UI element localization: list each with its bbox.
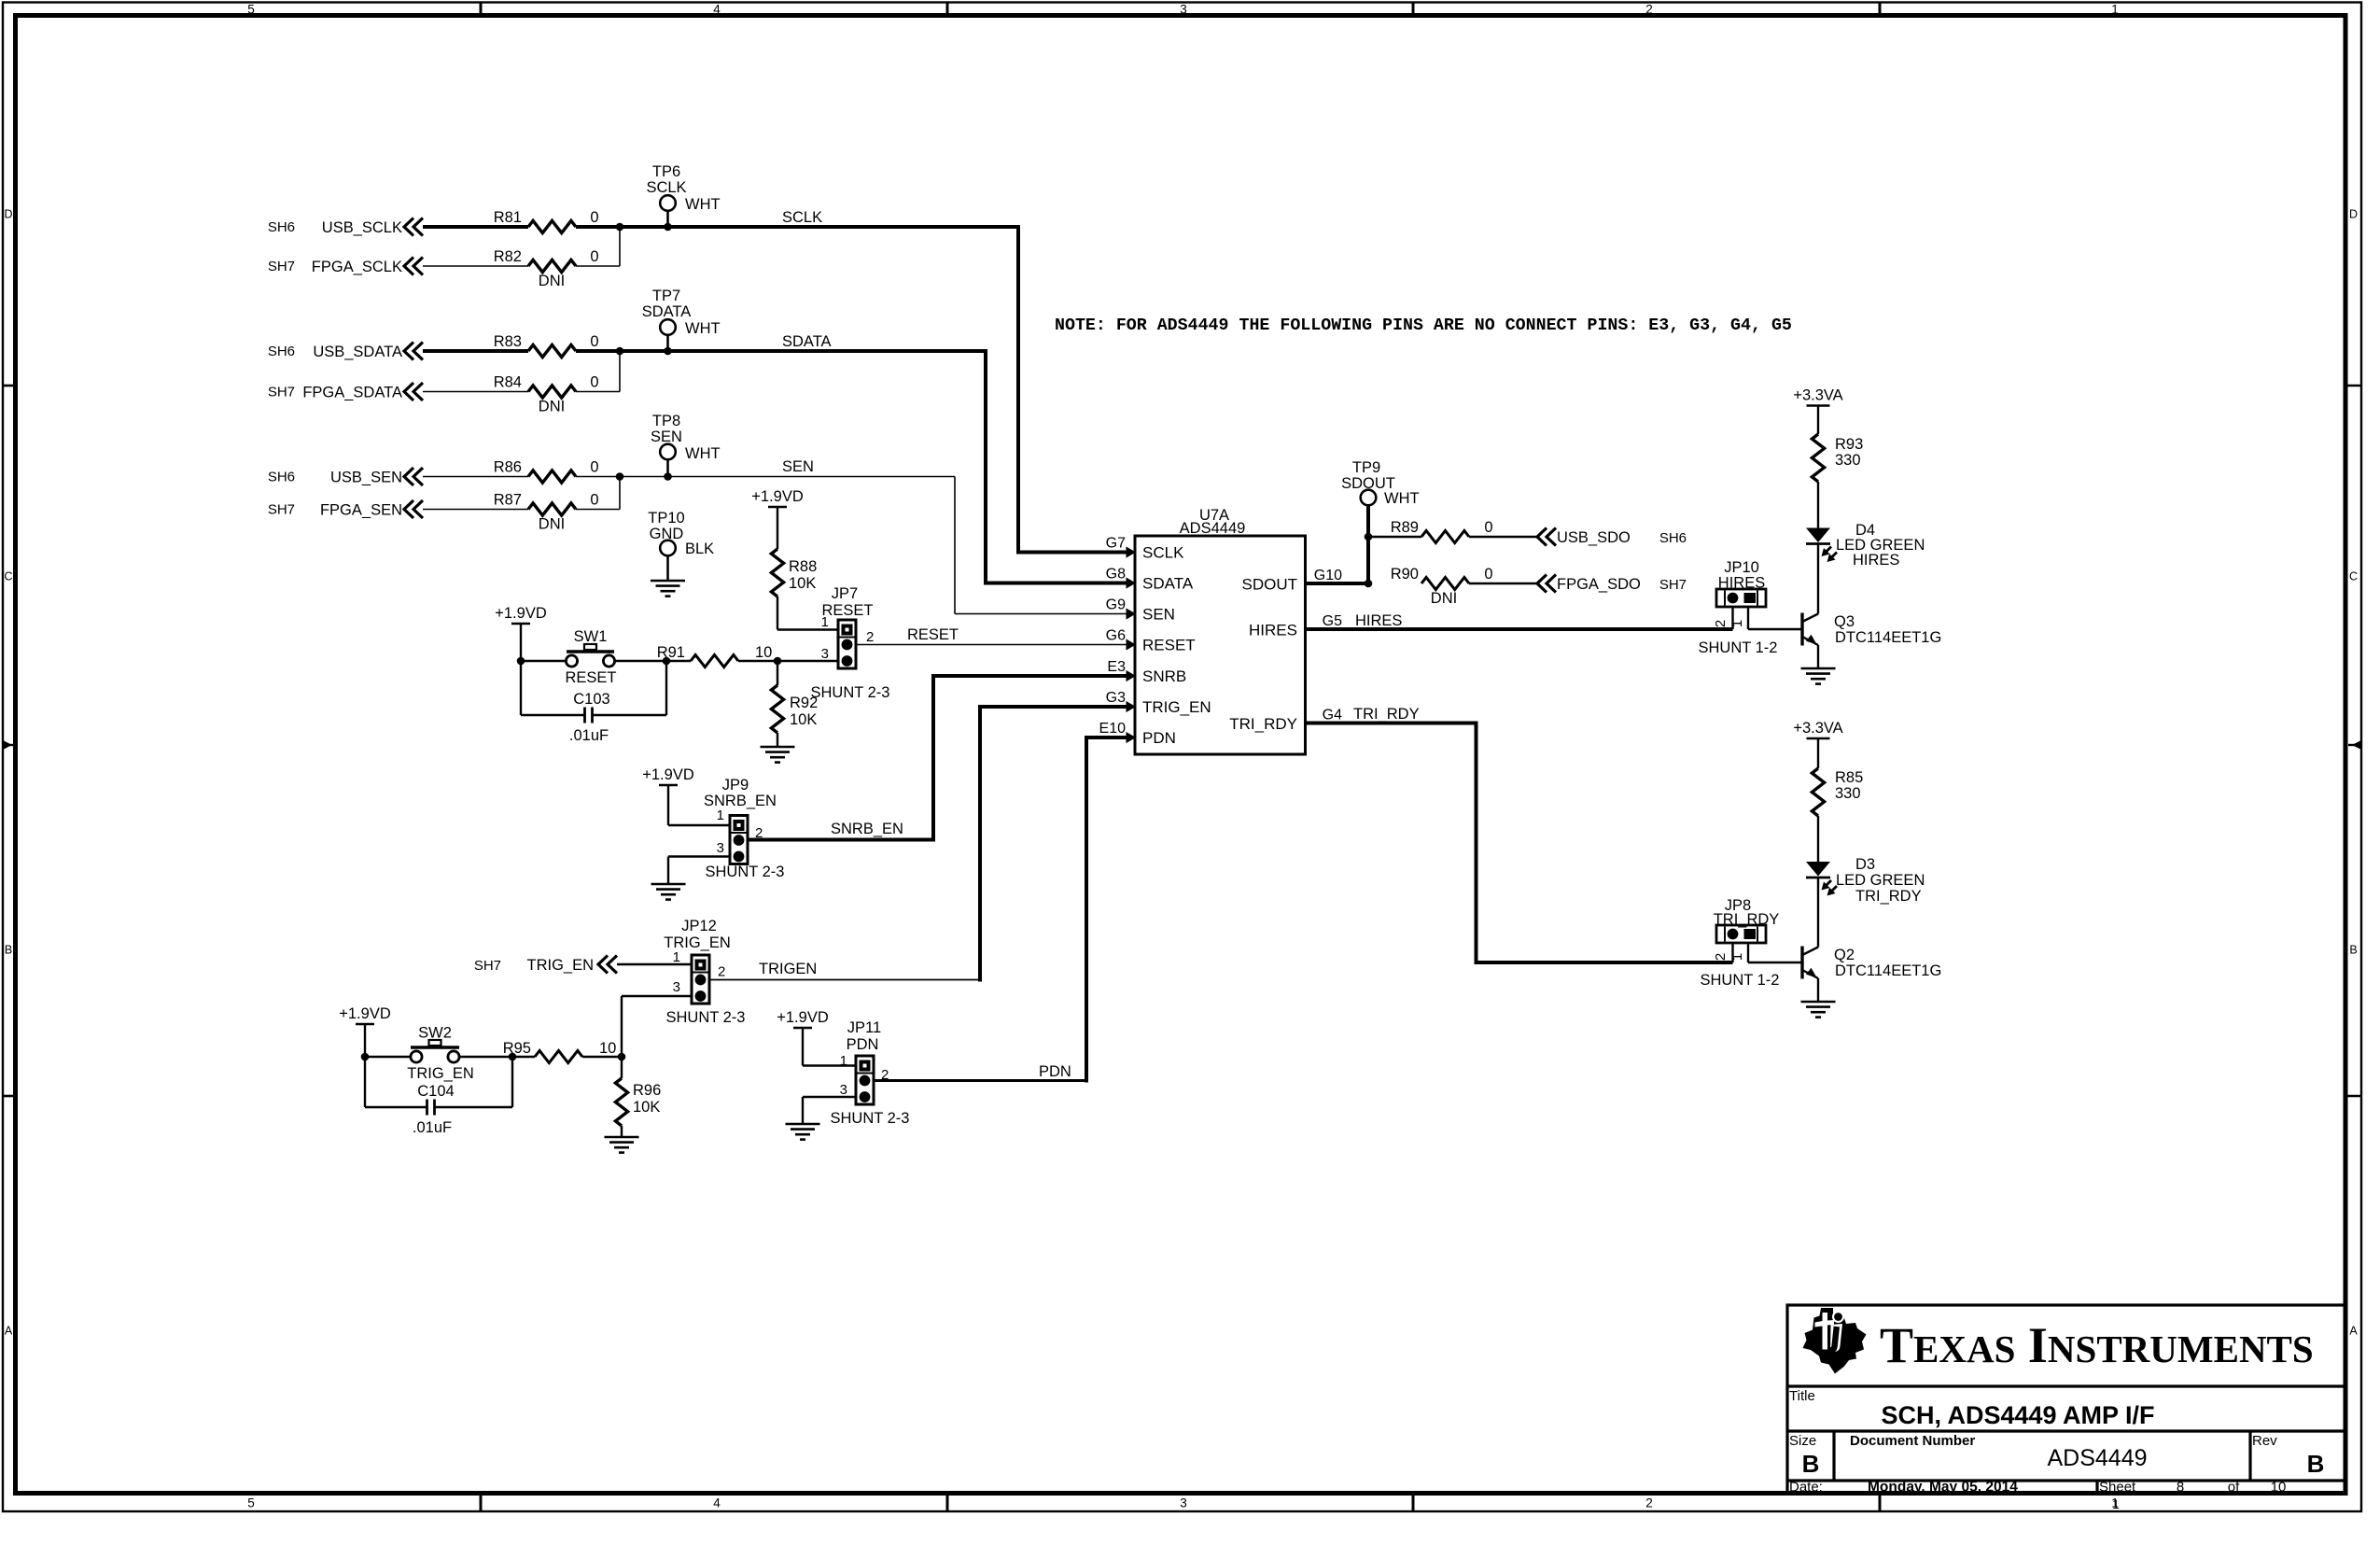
svg-text:SH6: SH6 <box>1659 530 1687 546</box>
svg-text:R82: R82 <box>494 248 522 265</box>
svg-text:Q3: Q3 <box>1834 613 1855 630</box>
svg-text:3: 3 <box>1180 1496 1187 1510</box>
svg-text:USB_SDATA: USB_SDATA <box>313 344 402 360</box>
svg-text:Size: Size <box>1789 1433 1816 1449</box>
svg-text:0: 0 <box>1484 566 1492 583</box>
svg-text:Title: Title <box>1789 1388 1815 1404</box>
svg-text:1: 1 <box>1729 953 1745 961</box>
svg-text:Monday, May 05, 2014: Monday, May 05, 2014 <box>1868 1480 2018 1496</box>
svg-text:330: 330 <box>1835 452 1861 469</box>
svg-text:RESET: RESET <box>1142 637 1196 654</box>
svg-text:1: 1 <box>2111 3 2119 17</box>
svg-text:C103: C103 <box>573 691 609 708</box>
svg-text:3: 3 <box>673 979 680 995</box>
svg-text:R88: R88 <box>789 558 817 575</box>
svg-text:SH7: SH7 <box>1659 577 1687 593</box>
svg-text:C104: C104 <box>417 1083 454 1100</box>
svg-text:FPGA_SDATA: FPGA_SDATA <box>302 385 402 401</box>
svg-text:Q2: Q2 <box>1834 947 1855 963</box>
svg-text:.01uF: .01uF <box>413 1119 452 1136</box>
svg-text:DNI: DNI <box>539 399 565 415</box>
svg-text:D3: D3 <box>1855 856 1875 873</box>
svg-text:LED GREEN: LED GREEN <box>1836 872 1925 889</box>
svg-text:1: 1 <box>2112 1497 2120 1511</box>
svg-text:JP7: JP7 <box>832 585 858 602</box>
svg-text:G4: G4 <box>1323 708 1342 723</box>
svg-text:ADS4449: ADS4449 <box>1180 520 1246 537</box>
svg-text:G8: G8 <box>1106 567 1126 583</box>
svg-text:SDATA: SDATA <box>1142 575 1194 593</box>
svg-text:WHT: WHT <box>1384 490 1420 507</box>
svg-text:A: A <box>2349 1325 2358 1338</box>
svg-text:SH6: SH6 <box>268 219 295 235</box>
svg-text:C: C <box>2349 570 2358 583</box>
svg-text:SH7: SH7 <box>268 502 295 518</box>
svg-text:1: 1 <box>673 949 680 965</box>
svg-text:TP9: TP9 <box>1352 459 1380 476</box>
svg-text:TRIG_EN: TRIG_EN <box>407 1065 474 1082</box>
svg-text:0: 0 <box>590 459 598 476</box>
svg-text:JP12: JP12 <box>681 918 717 934</box>
svg-text:of: of <box>2228 1480 2240 1496</box>
svg-text:1: 1 <box>821 614 829 630</box>
svg-text:R81: R81 <box>494 209 522 226</box>
svg-text:R83: R83 <box>494 333 522 350</box>
svg-text:BLK: BLK <box>685 541 714 557</box>
svg-text:.01uF: .01uF <box>569 727 609 744</box>
svg-text:1: 1 <box>1729 620 1745 627</box>
svg-text:G6: G6 <box>1106 628 1126 644</box>
svg-text:0: 0 <box>1484 519 1492 536</box>
svg-text:0: 0 <box>590 492 598 509</box>
svg-text:B: B <box>1802 1450 1820 1478</box>
svg-text:TRIGEN: TRIGEN <box>759 961 817 977</box>
svg-text:SNRB_EN: SNRB_EN <box>704 793 777 809</box>
svg-text:SEN: SEN <box>782 458 814 475</box>
svg-text:0: 0 <box>590 374 598 391</box>
svg-text:SDATA: SDATA <box>642 303 692 320</box>
svg-text:SCLK: SCLK <box>646 179 686 196</box>
svg-text:SEN: SEN <box>651 428 682 445</box>
svg-text:+1.9VD: +1.9VD <box>751 488 804 505</box>
svg-text:D: D <box>4 208 12 221</box>
svg-text:USB_SCLK: USB_SCLK <box>322 219 402 236</box>
svg-text:RESET: RESET <box>907 626 959 643</box>
svg-text:JP10: JP10 <box>1724 559 1759 576</box>
svg-text:4: 4 <box>713 3 721 17</box>
svg-text:0: 0 <box>590 333 598 350</box>
svg-text:SHUNT 2-3: SHUNT 2-3 <box>706 864 785 880</box>
svg-text:10: 10 <box>755 644 772 661</box>
svg-text:GND: GND <box>650 526 684 542</box>
svg-text:TP10: TP10 <box>648 510 684 527</box>
svg-text:+3.3VA: +3.3VA <box>1793 387 1842 404</box>
svg-text:TRIG_EN: TRIG_EN <box>526 957 594 974</box>
svg-text:SEN: SEN <box>1142 606 1175 624</box>
svg-text:DTC114EET1G: DTC114EET1G <box>1835 962 1941 979</box>
svg-text:HIRES: HIRES <box>1853 552 1899 569</box>
svg-text:SCLK: SCLK <box>1142 544 1184 562</box>
svg-text:330: 330 <box>1835 785 1861 802</box>
svg-text:2: 2 <box>1713 953 1729 961</box>
svg-text:4: 4 <box>713 1496 721 1510</box>
svg-text:ADS4449: ADS4449 <box>2047 1445 2147 1471</box>
svg-text:SH7: SH7 <box>474 958 501 974</box>
svg-text:DTC114EET1G: DTC114EET1G <box>1835 629 1941 646</box>
svg-text:SW2: SW2 <box>418 1025 452 1042</box>
svg-text:SCH, ADS4449 AMP I/F: SCH, ADS4449 AMP I/F <box>1881 1401 2154 1429</box>
svg-text:TRI_RDY: TRI_RDY <box>1855 888 1922 905</box>
svg-text:HIRES: HIRES <box>1249 622 1297 639</box>
svg-text:B: B <box>2349 944 2357 957</box>
svg-text:+1.9VD: +1.9VD <box>339 1005 391 1022</box>
svg-text:SDATA: SDATA <box>782 333 832 350</box>
svg-text:Date:: Date: <box>1789 1480 1823 1496</box>
svg-text:USB_SDO: USB_SDO <box>1557 529 1631 546</box>
svg-text:E3: E3 <box>1107 659 1126 675</box>
svg-text:NOTE: FOR ADS4449 THE FOLLOWIN: NOTE: FOR ADS4449 THE FOLLOWING PINS ARE… <box>1055 316 1792 335</box>
svg-text:3: 3 <box>717 840 724 856</box>
svg-text:RESET: RESET <box>821 602 873 619</box>
svg-text:R86: R86 <box>494 459 522 476</box>
svg-text:Sheet: Sheet <box>2099 1480 2136 1496</box>
svg-text:3: 3 <box>840 1082 847 1098</box>
svg-text:SHUNT 1-2: SHUNT 1-2 <box>1701 972 1780 989</box>
svg-text:10: 10 <box>2271 1480 2287 1496</box>
svg-text:3: 3 <box>821 646 829 662</box>
svg-text:JP11: JP11 <box>847 1019 881 1036</box>
svg-text:+3.3VA: +3.3VA <box>1793 720 1842 737</box>
svg-text:FPGA_SCLK: FPGA_SCLK <box>312 259 402 275</box>
svg-text:TRI_RDY: TRI_RDY <box>1714 911 1780 928</box>
svg-text:10: 10 <box>599 1040 616 1057</box>
svg-text:10K: 10K <box>790 711 817 728</box>
svg-text:R93: R93 <box>1835 436 1863 453</box>
svg-text:SHUNT 2-3: SHUNT 2-3 <box>831 1110 910 1127</box>
svg-text:2: 2 <box>718 964 725 980</box>
svg-text:Rev: Rev <box>2252 1433 2277 1449</box>
svg-text:FPGA_SEN: FPGA_SEN <box>320 502 402 519</box>
svg-text:R85: R85 <box>1835 769 1863 786</box>
svg-text:TRIG_EN: TRIG_EN <box>1142 698 1211 716</box>
svg-text:G10: G10 <box>1314 568 1342 583</box>
svg-text:SH7: SH7 <box>268 385 295 400</box>
svg-text:+1.9VD: +1.9VD <box>495 605 547 622</box>
svg-text:R91: R91 <box>657 644 685 661</box>
svg-text:DNI: DNI <box>539 273 565 289</box>
svg-text:SW1: SW1 <box>574 628 608 645</box>
svg-text:SNRB_EN: SNRB_EN <box>831 821 903 837</box>
svg-text:2: 2 <box>1645 1496 1653 1510</box>
svg-text:8: 8 <box>2177 1480 2184 1496</box>
svg-text:G5: G5 <box>1323 613 1342 629</box>
svg-text:TRI_RDY: TRI_RDY <box>1229 715 1297 733</box>
svg-text:2: 2 <box>866 629 874 645</box>
svg-text:HIRES: HIRES <box>1355 612 1402 629</box>
svg-text:FPGA_SDO: FPGA_SDO <box>1557 576 1641 593</box>
svg-text:B: B <box>5 944 12 957</box>
svg-text:1: 1 <box>840 1053 847 1069</box>
svg-text:G7: G7 <box>1106 536 1126 552</box>
svg-text:SHUNT 2-3: SHUNT 2-3 <box>811 684 890 701</box>
svg-text:USB_SEN: USB_SEN <box>330 470 402 486</box>
svg-text:HIRES: HIRES <box>1718 575 1765 592</box>
svg-text:WHT: WHT <box>685 320 721 337</box>
svg-text:TRI_RDY: TRI_RDY <box>1353 706 1420 723</box>
svg-text:+1.9VD: +1.9VD <box>642 766 694 783</box>
svg-text:JP9: JP9 <box>722 777 749 794</box>
svg-text:+1.9VD: +1.9VD <box>777 1009 829 1026</box>
svg-text:RESET: RESET <box>565 669 616 686</box>
svg-text:G9: G9 <box>1106 597 1126 613</box>
svg-text:2: 2 <box>1645 3 1653 17</box>
svg-text:G3: G3 <box>1106 690 1126 706</box>
svg-text:0: 0 <box>590 209 598 226</box>
svg-text:TP6: TP6 <box>652 163 680 180</box>
svg-text:R90: R90 <box>1391 566 1419 583</box>
svg-text:R95: R95 <box>503 1040 531 1057</box>
svg-text:Document Number: Document Number <box>1850 1433 1975 1449</box>
svg-text:C: C <box>4 570 12 583</box>
svg-text:WHT: WHT <box>685 196 721 213</box>
svg-text:5: 5 <box>247 1496 255 1510</box>
svg-text:SNRB: SNRB <box>1142 667 1186 685</box>
svg-text:B: B <box>2307 1450 2325 1478</box>
svg-text:10K: 10K <box>633 1099 660 1116</box>
svg-text:SH6: SH6 <box>268 470 295 485</box>
svg-text:R92: R92 <box>790 695 818 711</box>
svg-text:5: 5 <box>247 3 255 17</box>
svg-text:R87: R87 <box>494 492 522 509</box>
svg-text:R96: R96 <box>633 1082 661 1099</box>
svg-text:SCLK: SCLK <box>782 209 822 226</box>
svg-text:PDN: PDN <box>1142 729 1176 747</box>
svg-text:3: 3 <box>1180 3 1187 17</box>
svg-text:D: D <box>2349 208 2358 221</box>
svg-text:TP7: TP7 <box>652 288 680 304</box>
svg-text:2: 2 <box>1713 620 1729 627</box>
svg-text:1: 1 <box>717 808 724 823</box>
svg-text:SDOUT: SDOUT <box>1242 576 1298 594</box>
svg-text:DNI: DNI <box>1431 590 1457 607</box>
svg-text:SHUNT 2-3: SHUNT 2-3 <box>666 1009 746 1026</box>
svg-text:DNI: DNI <box>539 516 565 533</box>
svg-text:PDN: PDN <box>847 1036 879 1053</box>
svg-text:SHUNT 1-2: SHUNT 1-2 <box>1699 639 1778 656</box>
svg-text:SH7: SH7 <box>268 259 295 274</box>
svg-text:SH6: SH6 <box>268 344 295 359</box>
svg-text:PDN: PDN <box>1039 1063 1071 1080</box>
svg-text:A: A <box>5 1325 13 1338</box>
svg-text:10K: 10K <box>789 575 816 592</box>
svg-text:E10: E10 <box>1099 721 1127 737</box>
svg-text:TP8: TP8 <box>652 413 680 429</box>
svg-text:WHT: WHT <box>685 445 721 462</box>
svg-text:0: 0 <box>590 248 598 265</box>
svg-text:R84: R84 <box>494 374 522 391</box>
svg-text:R89: R89 <box>1391 519 1419 536</box>
